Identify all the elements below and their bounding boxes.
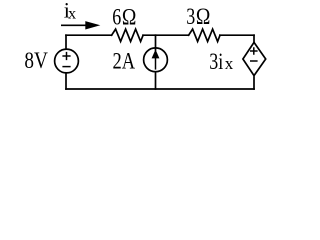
U1 plus sign [250,47,258,55]
U1 minus sign [250,60,258,62]
resistor R2 3ohm [189,29,220,41]
ix current arrow shaft [61,24,88,26]
I1 arrow shaft [155,56,157,70]
svg-text:3: 3 [186,4,195,30]
I1 arrow head [152,49,160,58]
wire left branch upper [65,35,67,48]
wire top-left segment [66,34,112,36]
wire right branch lower [253,77,255,89]
wire middle branch lower [155,72,157,89]
wire right branch upper [253,35,255,42]
dependent source U1 diamond [243,42,266,75]
svg-text:x: x [225,54,234,73]
ix current arrow head [85,21,100,29]
V1 plus sign [62,52,70,60]
current source I1 circle [144,48,168,72]
svg-text:x: x [68,6,76,23]
wire middle branch upper [155,35,157,50]
svg-text:3i: 3i [209,49,223,75]
svg-text:6: 6 [112,5,121,31]
svg-text:2A: 2A [113,48,136,74]
wire top-right segment [220,34,254,36]
wire top-middle segment [143,34,189,36]
wire bottom [66,88,254,90]
resistor R1 6ohm [112,29,144,41]
svg-text:Ω: Ω [122,5,136,31]
svg-text:Ω: Ω [196,4,211,30]
V1 minus sign [62,66,70,68]
voltage source V1 circle [55,49,79,73]
svg-text:8V: 8V [24,48,48,74]
wire left branch lower [65,73,67,89]
